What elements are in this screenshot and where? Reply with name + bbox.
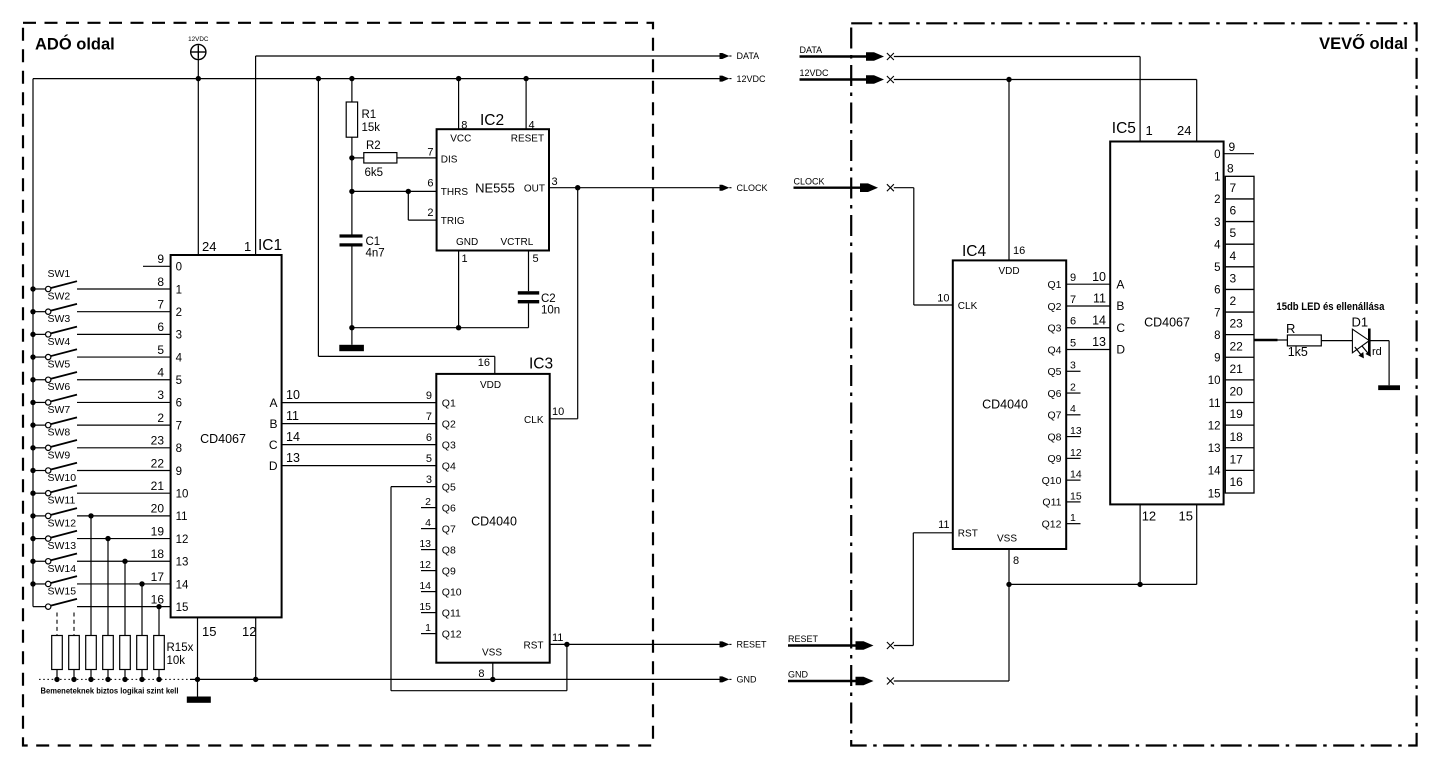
svg-text:9: 9 [1229, 140, 1236, 154]
svg-text:SW3: SW3 [48, 313, 71, 325]
svg-text:C2: C2 [541, 293, 556, 305]
svg-text:12: 12 [419, 559, 431, 571]
svg-text:3: 3 [1214, 217, 1220, 229]
switch SW8 [30, 427, 170, 451]
wire IC5 pin12 to ground [1139, 504, 1141, 584]
svg-text:19: 19 [151, 524, 165, 538]
svg-text:D: D [269, 459, 278, 473]
svg-text:Q10: Q10 [1042, 475, 1062, 487]
svg-text:4: 4 [157, 366, 164, 380]
svg-text:Q7: Q7 [442, 523, 456, 535]
svg-text:GND: GND [737, 675, 758, 685]
svg-text:15: 15 [1179, 509, 1193, 524]
resistor R15x element 2 [69, 613, 80, 683]
svg-text:DATA: DATA [737, 51, 760, 61]
svg-text:6: 6 [427, 178, 433, 190]
svg-text:13: 13 [176, 557, 189, 569]
svg-text:15: 15 [176, 602, 189, 614]
svg-text:6: 6 [176, 398, 182, 410]
IC3 Q pin labels [442, 397, 462, 640]
svg-text:2: 2 [1214, 194, 1220, 206]
resistor R2 6k5 [349, 140, 436, 179]
wire IC2 OUT / CLOCK [549, 185, 720, 190]
svg-text:Q2: Q2 [442, 418, 456, 430]
svg-text:2: 2 [427, 207, 433, 219]
IC1 pin 0 stub (pin 9) [143, 265, 171, 267]
svg-text:Q8: Q8 [442, 544, 456, 556]
svg-text:SW9: SW9 [48, 449, 71, 461]
svg-text:VSS: VSS [997, 534, 1017, 545]
IC4 Q pin labels [1042, 279, 1062, 530]
svg-text:13: 13 [1070, 425, 1082, 437]
svg-text:8: 8 [1013, 555, 1019, 567]
svg-text:1: 1 [176, 284, 182, 296]
svg-text:IC4: IC4 [962, 243, 987, 260]
svg-text:SW10: SW10 [48, 472, 77, 484]
svg-text:10k: 10k [167, 655, 186, 667]
svg-text:2: 2 [1070, 381, 1076, 393]
label R15x 10k [167, 642, 194, 667]
svg-text:4: 4 [1214, 239, 1221, 251]
switch SW9 [30, 449, 170, 473]
svg-text:1: 1 [462, 253, 468, 265]
arrow 12VDC [720, 74, 767, 84]
svg-text:5: 5 [176, 375, 182, 387]
label ADÓ oldal [35, 35, 115, 54]
svg-text:13: 13 [1208, 443, 1221, 455]
svg-text:CLOCK: CLOCK [794, 176, 825, 186]
switch SW5 [30, 359, 170, 383]
svg-text:TRIG: TRIG [441, 216, 465, 227]
wire IC2 GND pin1 [458, 251, 460, 328]
svg-text:15: 15 [202, 624, 216, 639]
svg-text:12: 12 [1142, 509, 1156, 524]
svg-text:CD4067: CD4067 [200, 432, 246, 446]
svg-text:Q5: Q5 [442, 481, 456, 493]
svg-text:1: 1 [244, 239, 251, 254]
svg-text:Q3: Q3 [442, 439, 456, 451]
svg-text:19: 19 [1230, 407, 1244, 421]
svg-text:6: 6 [1070, 316, 1076, 328]
svg-text:VEVŐ oldal: VEVŐ oldal [1319, 34, 1408, 53]
switch SW13 [30, 540, 170, 564]
svg-text:13: 13 [1092, 335, 1106, 349]
svg-text:15k: 15k [362, 122, 381, 134]
svg-text:VCC: VCC [450, 134, 471, 145]
svg-text:SW12: SW12 [48, 517, 77, 529]
svg-text:7: 7 [426, 411, 432, 423]
svg-text:2: 2 [1230, 294, 1237, 308]
LED D1 [1352, 315, 1382, 359]
input port RESET [788, 634, 894, 650]
svg-text:16: 16 [478, 357, 490, 369]
wire IC1 pin15 to ground rail [197, 617, 199, 679]
wire 12VDC to IC5 pin24 [894, 80, 1197, 142]
switch SW11 [30, 495, 170, 519]
svg-text:18: 18 [151, 547, 165, 561]
svg-text:16: 16 [1230, 475, 1244, 489]
svg-text:SW6: SW6 [48, 381, 71, 393]
wire IC2 RESET pin4 [525, 79, 527, 130]
wire IC3 VDD pin16 from rail [318, 79, 494, 374]
resistor R15x element 5 [120, 559, 131, 683]
svg-text:Q6: Q6 [442, 502, 456, 514]
wire IC3 VSS pin8 [490, 663, 495, 682]
wires IC4 Q1-Q4 to IC5 A,B,C,D [1066, 270, 1125, 357]
svg-text:2: 2 [176, 307, 182, 319]
svg-text:16: 16 [1013, 245, 1025, 257]
svg-text:9: 9 [426, 390, 432, 402]
svg-text:7: 7 [1230, 181, 1237, 195]
svg-text:RST: RST [524, 640, 544, 651]
svg-text:VDD: VDD [998, 266, 1019, 277]
svg-text:12VDC: 12VDC [800, 68, 830, 78]
svg-text:10: 10 [1208, 375, 1221, 387]
svg-text:10: 10 [1092, 270, 1106, 284]
svg-text:RESET: RESET [511, 134, 544, 145]
svg-text:22: 22 [151, 456, 165, 470]
svg-text:1: 1 [1214, 172, 1220, 184]
resistor R15x element 3 [86, 513, 97, 682]
svg-text:D1: D1 [1352, 315, 1369, 330]
IC5 internal channel numbers [1208, 149, 1221, 500]
svg-text:6k5: 6k5 [365, 167, 384, 179]
svg-text:8: 8 [1214, 330, 1220, 342]
IC4 Q5-Q12 stubs [1066, 360, 1082, 524]
wire IC4 VSS pin8 [1008, 549, 1010, 584]
svg-text:GND: GND [456, 237, 478, 248]
svg-text:24: 24 [202, 239, 216, 254]
power symbol 12VDC [188, 36, 209, 79]
svg-text:22: 22 [1230, 339, 1244, 353]
svg-text:1: 1 [425, 622, 431, 634]
svg-text:SW14: SW14 [48, 563, 77, 575]
wire OUT to IC3 CLK [550, 188, 578, 419]
svg-text:10: 10 [286, 388, 300, 402]
svg-text:IC1: IC1 [258, 237, 282, 254]
svg-text:Q10: Q10 [442, 586, 462, 598]
arrow CLOCK [720, 183, 768, 193]
svg-text:OUT: OUT [524, 183, 545, 194]
svg-text:9: 9 [157, 252, 164, 266]
svg-text:Q5: Q5 [1047, 366, 1061, 378]
svg-text:7: 7 [1070, 294, 1076, 306]
svg-text:18: 18 [1230, 430, 1244, 444]
svg-text:21: 21 [151, 479, 165, 493]
wire IC3 Q5 feedback to RST [391, 474, 567, 691]
ground rail wire to GND arrow [190, 677, 720, 682]
svg-text:9: 9 [1070, 272, 1076, 284]
svg-text:R1: R1 [362, 109, 377, 121]
svg-text:3: 3 [1230, 271, 1237, 285]
svg-text:Q11: Q11 [1042, 497, 1061, 509]
switch SW7 [30, 404, 170, 428]
counter IC3 CD4040 [436, 356, 564, 681]
wire IC2 VCC pin8 [458, 79, 460, 130]
svg-text:Q11: Q11 [442, 607, 461, 619]
svg-text:SW5: SW5 [48, 359, 71, 371]
input port DATA [800, 45, 894, 61]
svg-text:10: 10 [176, 489, 189, 501]
ground symbol LED [1378, 385, 1400, 390]
wire DATA output [256, 56, 720, 255]
svg-text:DATA: DATA [800, 45, 823, 55]
wire LED to ground [1369, 341, 1389, 386]
svg-text:1: 1 [1070, 512, 1076, 524]
svg-text:6: 6 [1230, 204, 1237, 218]
svg-text:A: A [1116, 277, 1124, 291]
svg-text:Q9: Q9 [1047, 453, 1061, 465]
svg-text:12: 12 [1070, 447, 1082, 459]
capacitor C2 10n [518, 251, 560, 328]
svg-text:11: 11 [1209, 398, 1221, 410]
svg-text:SW1: SW1 [48, 268, 71, 280]
wire 12VDC branch to IC4 VDD [1006, 77, 1011, 261]
svg-text:15: 15 [1208, 488, 1221, 500]
svg-text:14: 14 [1208, 466, 1221, 478]
svg-text:IC2: IC2 [480, 112, 504, 129]
switch SW10 [30, 472, 170, 496]
svg-text:5: 5 [1070, 338, 1076, 350]
svg-text:14: 14 [1092, 313, 1106, 327]
ground symbol timer [339, 328, 364, 351]
svg-text:VSS: VSS [482, 647, 502, 658]
junction dots on 12VDC rail [196, 76, 529, 81]
resistor R15x element 7 [154, 604, 165, 682]
svg-text:THRS: THRS [441, 187, 469, 198]
svg-text:6: 6 [1214, 285, 1220, 297]
svg-text:13: 13 [419, 538, 431, 550]
switch SW1 [30, 268, 170, 292]
switch SW15 [33, 585, 171, 609]
svg-text:4: 4 [529, 120, 535, 132]
svg-text:A: A [269, 396, 277, 410]
counter IC4 CD4040 [937, 243, 1066, 567]
switch SW12 [30, 517, 170, 541]
resistor R15x element 1 [52, 613, 63, 683]
arrow RESET [720, 640, 768, 650]
IC5 pin0 stub (pin 9) [1224, 140, 1254, 154]
svg-text:4n7: 4n7 [366, 248, 385, 260]
input port GND [788, 670, 894, 686]
svg-text:11: 11 [938, 519, 949, 531]
svg-text:10: 10 [552, 406, 564, 418]
svg-text:2: 2 [425, 496, 431, 508]
wire LED feed (bus) [1254, 339, 1287, 341]
svg-text:Q12: Q12 [442, 628, 462, 640]
svg-text:8: 8 [478, 668, 484, 680]
svg-text:C: C [1116, 321, 1125, 335]
svg-text:Q4: Q4 [1047, 344, 1061, 356]
wire RESET to IC4 RST [894, 533, 953, 646]
svg-text:R: R [1286, 321, 1295, 336]
svg-text:8: 8 [176, 443, 182, 455]
svg-text:7: 7 [1214, 307, 1220, 319]
resistor R15x element 6 [137, 581, 148, 682]
svg-text:SW15: SW15 [48, 585, 77, 597]
svg-text:DIS: DIS [441, 154, 458, 165]
switch SW6 [30, 381, 170, 405]
svg-text:4: 4 [1070, 403, 1076, 415]
svg-text:24: 24 [1177, 123, 1191, 138]
svg-text:4: 4 [425, 517, 431, 529]
svg-text:13: 13 [286, 451, 300, 465]
svg-text:NE555: NE555 [475, 181, 515, 196]
svg-text:14: 14 [419, 580, 431, 592]
switch SW14 [30, 563, 170, 587]
svg-text:5: 5 [1230, 226, 1237, 240]
switch SW3 [30, 313, 170, 337]
svg-text:12VDC: 12VDC [737, 74, 767, 84]
svg-text:C: C [269, 438, 278, 452]
svg-text:11: 11 [552, 632, 563, 644]
svg-text:SW4: SW4 [48, 336, 71, 348]
svg-text:CLK: CLK [958, 301, 978, 312]
svg-text:6: 6 [426, 432, 432, 444]
svg-text:RESET: RESET [788, 634, 819, 644]
note Bemeneteknek biztos logikai szint kell [41, 687, 179, 696]
IC3 Q6-Q12 stubs [419, 496, 436, 634]
wire R1 bottom to THRS and C1 [351, 158, 353, 235]
svg-text:ADÓ oldal: ADÓ oldal [35, 35, 115, 54]
svg-text:Q2: Q2 [1047, 301, 1061, 313]
svg-text:SW11: SW11 [48, 495, 76, 507]
wire TRIG branch [408, 191, 436, 220]
ground symbol under IC1 [187, 679, 211, 702]
svg-text:17: 17 [151, 570, 165, 584]
svg-text:3: 3 [426, 474, 432, 486]
svg-text:10: 10 [937, 293, 949, 305]
svg-text:Bemeneteknek biztos logikai sz: Bemeneteknek biztos logikai szint kell [41, 687, 179, 696]
svg-text:20: 20 [151, 502, 165, 516]
svg-text:Q12: Q12 [1042, 518, 1062, 530]
svg-text:3: 3 [176, 330, 182, 342]
receiver section frame VEVŐ oldal [851, 23, 1416, 745]
svg-text:11: 11 [176, 511, 188, 523]
wire 12VDC rail [33, 78, 720, 80]
wire THRS [349, 189, 436, 194]
svg-text:B: B [1116, 299, 1124, 313]
svg-text:SW7: SW7 [48, 404, 71, 416]
svg-text:12: 12 [242, 624, 256, 639]
svg-text:12VDC: 12VDC [188, 36, 209, 43]
svg-text:7: 7 [176, 420, 182, 432]
svg-text:3: 3 [157, 388, 164, 402]
svg-text:14: 14 [286, 430, 300, 444]
svg-text:R2: R2 [366, 140, 381, 152]
svg-text:rd: rd [1372, 346, 1382, 358]
svg-text:3: 3 [1070, 360, 1076, 372]
svg-text:3: 3 [552, 176, 558, 188]
svg-text:SW2: SW2 [48, 290, 71, 302]
svg-text:15db LED és ellenállása: 15db LED és ellenállása [1276, 301, 1384, 313]
svg-text:SW13: SW13 [48, 540, 77, 552]
svg-text:CLOCK: CLOCK [737, 183, 768, 193]
svg-text:7: 7 [157, 297, 164, 311]
wire switch common bus [32, 79, 34, 607]
transmitter section frame ADÓ oldal [23, 23, 653, 746]
IC5 pin1 number 8 [1227, 162, 1234, 176]
wire CLOCK to IC4 CLK [894, 188, 953, 305]
label VEVŐ oldal [1319, 34, 1408, 53]
svg-text:14: 14 [1070, 469, 1082, 481]
svg-text:20: 20 [1230, 385, 1244, 399]
svg-text:RESET: RESET [737, 640, 768, 650]
svg-text:12: 12 [176, 534, 189, 546]
IC5 output pin box column [1225, 176, 1254, 493]
svg-text:8: 8 [157, 275, 164, 289]
wire receiver ground rail [1006, 582, 1196, 587]
svg-text:VCTRL: VCTRL [501, 237, 534, 248]
svg-text:SW8: SW8 [48, 427, 71, 439]
svg-text:5: 5 [1214, 262, 1220, 274]
timer IC2 NE555 [427, 112, 557, 265]
svg-text:15: 15 [1070, 490, 1082, 502]
svg-text:Q7: Q7 [1047, 410, 1061, 422]
svg-text:Q9: Q9 [442, 565, 456, 577]
svg-text:Q6: Q6 [1047, 388, 1061, 400]
svg-text:17: 17 [1230, 452, 1244, 466]
svg-text:23: 23 [151, 434, 165, 448]
wire DATA to IC5 pin1 [894, 57, 1140, 142]
multiplexer IC1 CD4067 [171, 237, 283, 639]
wire timer ground rail [349, 325, 528, 330]
svg-text:5: 5 [533, 253, 539, 265]
svg-text:1k5: 1k5 [1288, 345, 1308, 359]
svg-text:9: 9 [176, 466, 182, 478]
arrow DATA [720, 51, 760, 61]
resistor R15x element 4 [103, 536, 114, 682]
svg-text:23: 23 [1230, 317, 1244, 331]
svg-text:5: 5 [426, 453, 432, 465]
svg-text:CLK: CLK [524, 415, 544, 426]
wire IC5 pin15 to ground [1196, 504, 1198, 584]
svg-text:9: 9 [1214, 353, 1220, 365]
note 15db LED és ellenállása [1276, 301, 1384, 313]
svg-text:Q3: Q3 [1047, 323, 1061, 335]
svg-text:10n: 10n [541, 305, 560, 317]
svg-text:6: 6 [157, 320, 164, 334]
svg-text:GND: GND [788, 670, 809, 680]
input port CLOCK [794, 176, 894, 192]
svg-text:CD4067: CD4067 [1144, 316, 1190, 330]
svg-text:4: 4 [1230, 249, 1237, 263]
svg-text:CD4040: CD4040 [982, 398, 1028, 412]
ground rail (dotted left part) [39, 678, 190, 680]
svg-text:8: 8 [461, 120, 467, 132]
resistor R 1k5 [1286, 321, 1352, 359]
switch SW2 [30, 290, 170, 314]
svg-text:Q1: Q1 [1047, 279, 1061, 291]
switch SW4 [30, 336, 170, 360]
svg-text:C1: C1 [366, 236, 381, 248]
wire GND to IC4 VSS node [894, 584, 1009, 681]
svg-text:Q8: Q8 [1047, 431, 1061, 443]
svg-text:Q1: Q1 [442, 397, 456, 409]
svg-text:11: 11 [286, 409, 299, 423]
svg-text:B: B [269, 417, 277, 431]
svg-text:0: 0 [1214, 149, 1220, 161]
svg-text:RST: RST [958, 529, 978, 540]
svg-text:14: 14 [176, 579, 189, 591]
multiplexer IC5 CD4067 [1110, 120, 1223, 524]
svg-text:7: 7 [427, 147, 433, 159]
svg-text:2: 2 [157, 411, 164, 425]
svg-text:16: 16 [151, 592, 165, 606]
svg-text:R15x: R15x [167, 642, 194, 654]
svg-text:4: 4 [176, 352, 183, 364]
svg-text:12: 12 [1208, 420, 1221, 432]
